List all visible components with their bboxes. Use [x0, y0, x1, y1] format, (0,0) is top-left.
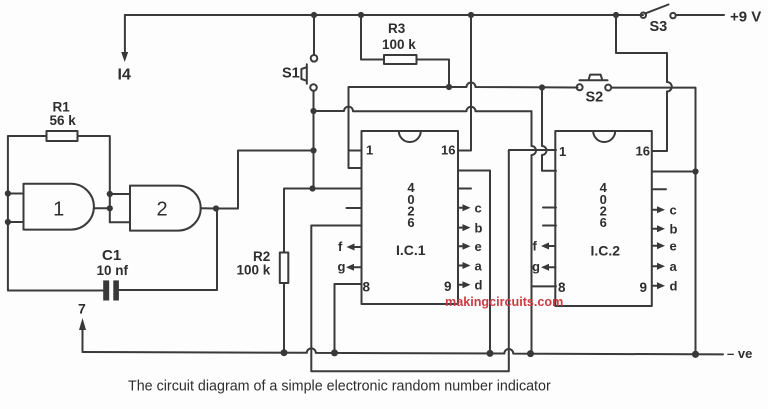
junction top rail at IC1 pin16 drop — [468, 12, 474, 18]
svg-text:16: 16 — [441, 143, 455, 158]
wire IC1 pin16 drop from rail — [458, 15, 471, 151]
junction top rail at S2 feed — [613, 12, 619, 18]
wire bottom rail -ve — [83, 348, 724, 354]
wire R3 left to rail — [361, 15, 384, 60]
svg-text:2: 2 — [156, 199, 167, 221]
svg-text:56 k: 56 k — [50, 113, 77, 128]
junction line A / S2-to-IC2 drop — [539, 84, 545, 90]
wire R1 left to gate1 inputs vertical — [8, 136, 47, 289]
pin d IC1 — [458, 284, 464, 286]
svg-text:8: 8 — [363, 280, 371, 295]
wire gate2 input stubs — [110, 194, 129, 222]
svg-text:+9 V: +9 V — [730, 9, 761, 26]
svg-text:f: f — [338, 239, 343, 254]
svg-text:1: 1 — [53, 199, 64, 221]
pin c IC1 — [458, 207, 464, 209]
svg-text:g: g — [532, 259, 540, 274]
wire line B drop to bottom rail — [532, 111, 537, 353]
junction gate2 out — [213, 205, 219, 211]
svg-text:The circuit diagram of a simpl: The circuit diagram of a simple electron… — [128, 379, 551, 395]
pin e IC1 — [458, 245, 464, 247]
junction gate1 input b — [5, 219, 11, 225]
junction rail R2 — [281, 349, 288, 356]
switch S1 — [313, 15, 315, 55]
junction gate2 output node — [107, 205, 113, 211]
pin g IC2 — [548, 266, 556, 268]
svg-text:1: 1 — [366, 143, 373, 158]
pin b IC1 — [458, 227, 464, 229]
svg-text:9: 9 — [444, 279, 452, 294]
pin f IC2 — [548, 245, 556, 247]
IC2 notch — [593, 131, 615, 142]
wire IC1 right NC stub — [458, 188, 471, 190]
junction top rail at R3 — [358, 12, 364, 18]
svg-text:c: c — [475, 201, 482, 216]
svg-text:S2: S2 — [586, 90, 604, 106]
wire top rail +9V — [125, 14, 643, 16]
wire IC1 left NC stub — [347, 207, 362, 209]
wire S2 branch to IC2 pin2 — [542, 88, 556, 171]
svg-text:7: 7 — [78, 301, 86, 317]
wire gate1 input stubs — [8, 194, 22, 223]
svg-text:6: 6 — [600, 215, 607, 230]
node 7 arrow — [82, 327, 84, 352]
svg-text:1: 1 — [559, 144, 566, 159]
svg-text:I.C.1: I.C.1 — [396, 242, 426, 258]
pin c IC2 — [653, 209, 659, 211]
pin f IC1 — [353, 246, 362, 248]
junction R3/line A — [446, 84, 452, 90]
svg-text:100 k: 100 k — [382, 37, 416, 52]
junction S1/line-B — [310, 108, 316, 114]
svg-text:10 nf: 10 nf — [97, 263, 129, 278]
wire IC1 pin2 entry — [349, 151, 362, 169]
svg-text:I.C.2: I.C.2 — [591, 243, 621, 259]
svg-text:a: a — [475, 258, 483, 273]
wire IC2 left NC stubs — [543, 208, 556, 226]
svg-text:R3: R3 — [388, 21, 406, 36]
switch S3 — [641, 13, 646, 18]
wire C1 right to gate2 out — [119, 209, 217, 291]
svg-text:e: e — [475, 239, 482, 254]
wire IC1 pin8 to rail — [335, 284, 362, 353]
switch S2 — [577, 84, 583, 90]
svg-text:b: b — [475, 220, 483, 235]
gate 1 — [24, 184, 94, 230]
junction S1/R2 tap — [309, 185, 315, 191]
svg-text:C1: C1 — [102, 247, 121, 264]
wire IC1 pin1 entry — [349, 149, 362, 151]
wire IC1 right pin to rail drop — [458, 171, 490, 354]
wire R2 bottom to rail — [283, 283, 285, 353]
svg-text:8: 8 — [558, 280, 566, 295]
svg-text:– ve: – ve — [727, 346, 752, 361]
op-amp/IC U2 I.C.2 4026 body — [555, 131, 652, 306]
svg-text:9: 9 — [640, 280, 648, 295]
svg-text:S1: S1 — [282, 66, 300, 82]
junction gate2 input a — [107, 191, 113, 197]
junction right vertical / IC2 pin — [692, 168, 698, 174]
pin g IC1 — [353, 266, 362, 268]
pin a IC1 — [458, 265, 464, 267]
wire IC2 right pin to right vertical — [653, 171, 696, 173]
wire S2 feed from rail to IC2 pin16 — [616, 15, 667, 151]
wire R3 right to line A — [417, 60, 450, 85]
wire IC2 right NC stub — [653, 188, 667, 190]
gate 2 — [130, 186, 201, 231]
wire line B (S1 to IC2 area) with hops — [314, 107, 532, 112]
junction gate1 input a — [5, 190, 11, 196]
junction rail IC2 pin8 — [527, 350, 534, 357]
wire gate1 out to gate2 — [94, 207, 110, 209]
IC1 notch — [399, 131, 421, 142]
op-amp/IC U1 I.C.1 4026 body — [362, 131, 459, 304]
wire gate2 out — [201, 207, 216, 209]
svg-text:a: a — [670, 259, 678, 274]
pin e IC2 — [653, 245, 659, 247]
wire C1 left — [8, 289, 103, 291]
wire gate2 output to S1 stem — [216, 151, 314, 209]
wire line A (S2 left to IC1 clock) with hops — [349, 83, 578, 149]
svg-text:c: c — [670, 203, 677, 218]
junction top rail at S1 — [311, 12, 317, 18]
wire S3 to +9V — [676, 14, 724, 16]
wire R2 top to S1 tap and IC1 — [284, 189, 362, 253]
wire IC2 pin8 to rail — [531, 285, 556, 287]
svg-text:f: f — [533, 239, 538, 254]
pin d IC2 — [653, 285, 659, 287]
svg-text:6: 6 — [407, 215, 414, 230]
pin a IC2 — [653, 265, 659, 267]
wire S1 down stem — [313, 91, 315, 189]
junction rail right vertical — [692, 351, 699, 358]
svg-text:d: d — [475, 278, 483, 293]
svg-text:g: g — [338, 259, 346, 274]
svg-text:S3: S3 — [650, 19, 668, 35]
svg-text:makingcircuits.com: makingcircuits.com — [445, 295, 563, 309]
svg-text:100 k: 100 k — [237, 263, 271, 278]
junction S1/gate2 line — [310, 147, 316, 153]
junction rail IC1 right drop — [487, 350, 494, 357]
pin b IC2 — [653, 228, 659, 230]
wire IC1 under-loop to IC2 pin1 — [311, 150, 556, 371]
svg-text:I4: I4 — [118, 67, 131, 84]
svg-text:e: e — [670, 239, 677, 254]
junction rail IC1 pin8 — [331, 349, 338, 356]
wire R1 right down to gate2 input — [78, 136, 110, 222]
node I4 arrow — [124, 15, 126, 53]
svg-text:d: d — [670, 279, 678, 294]
svg-text:b: b — [670, 222, 678, 237]
wire S2 right to right vertical — [612, 88, 696, 355]
svg-text:16: 16 — [636, 144, 650, 159]
